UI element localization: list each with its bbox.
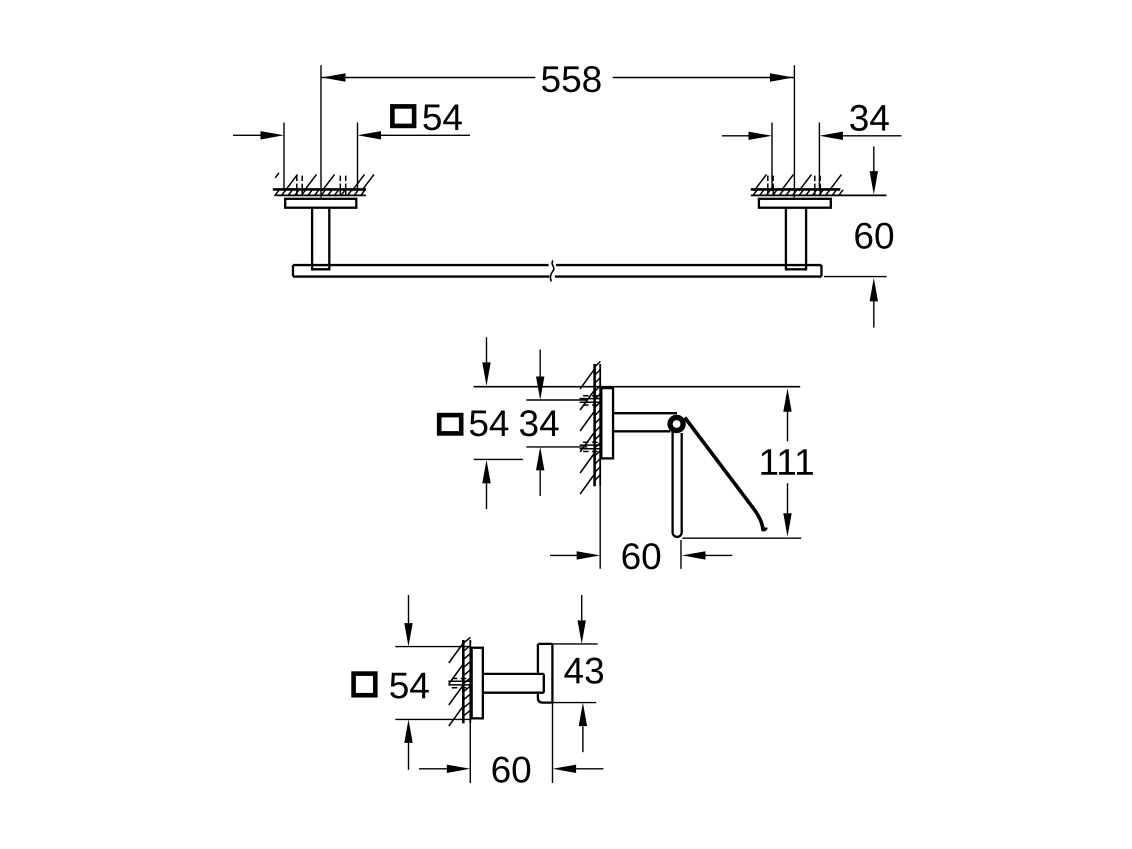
svg-text:34: 34 (849, 98, 890, 139)
wall surface right (towel bar) (751, 188, 841, 191)
dimension 60 extension lines (paper holder) (600, 486, 681, 569)
dimension 54 extension lines (left plate) (284, 123, 358, 191)
dimension 54 arrows (hook) (408, 595, 410, 623)
dimension 558 extension line left (mount centerline) (320, 65, 322, 197)
svg-text:54: 54 (468, 403, 509, 444)
dimension 558 line and arrows (321, 77, 794, 79)
wall rosette plate (paper holder) (601, 388, 613, 458)
dimension 60 extension lines (hook) (470, 703, 552, 783)
bottom extension line (paper holder) (682, 537, 801, 539)
dimension 60 right arrow (hook) (553, 765, 577, 773)
svg-text:111: 111 (758, 442, 814, 483)
dimension 54 line and arrows (233, 134, 470, 136)
dimension 34 extension lines (paper holder) (526, 400, 587, 447)
wall surface (paper holder) (593, 364, 596, 486)
roll holder post (paper holder) (673, 431, 682, 537)
square symbol 54 (towel bar) (392, 106, 414, 126)
cover flap (paper holder) (685, 418, 766, 530)
dimension 43 extension lines (hook) (552, 644, 597, 703)
hook front piece (538, 644, 553, 703)
square symbol 54 (hook) (354, 674, 376, 696)
hook stem (483, 674, 544, 693)
left post (towel bar) (311, 208, 330, 270)
dimension 111 line and arrows (paper holder) (783, 388, 791, 412)
svg-text:60: 60 (621, 536, 662, 577)
wall surface left (towel bar) (273, 188, 366, 191)
holder arm (paper holder) (614, 413, 678, 431)
wall hatching (paper holder) (580, 361, 601, 494)
svg-text:60: 60 (491, 749, 532, 790)
dimension 60 lower arrow (towel bar) (873, 295, 875, 328)
dimension 54 lower extension and arrow (paper holder) (474, 458, 523, 460)
svg-text:558: 558 (541, 59, 603, 100)
dimension 60 upper arrow (towel bar) (873, 146, 875, 178)
dimension 34 extension lines (right plate) (772, 123, 819, 192)
svg-text:54: 54 (389, 665, 430, 706)
wall hatching right (towel bar) (753, 174, 844, 196)
wall surface (hook) (462, 640, 465, 723)
pivot circle (paper holder) (670, 417, 683, 430)
towel rail bar (293, 265, 821, 277)
svg-text:60: 60 (853, 215, 894, 256)
svg-text:54: 54 (422, 97, 463, 138)
top extension line (paper holder) (474, 386, 801, 388)
dimension 54 upper arrow (paper holder) (486, 337, 488, 362)
dimension 60 left arrow (paper holder) (550, 554, 578, 556)
break symbol on bar (550, 261, 553, 282)
dimension 60 left arrow (hook) (419, 768, 447, 770)
wall plate (hook) (472, 648, 483, 719)
dimension 60 right arrow (paper holder) (682, 551, 706, 559)
left wall plate (towel bar) (285, 199, 356, 208)
dimension 43 arrows (hook) (581, 595, 583, 620)
right post (towel bar) (785, 208, 807, 270)
wall hatching (hook) (448, 637, 470, 726)
svg-text:34: 34 (519, 403, 560, 444)
square symbol 54 (paper holder) (439, 415, 461, 433)
right wall plate (towel bar) (759, 199, 831, 208)
wall hatching left (towel bar) (275, 173, 375, 196)
dimension 558 extension line right (mount centerline) (793, 65, 795, 197)
dimension 34 arrows (paper holder) (539, 350, 541, 377)
bar bottom extension line (824, 276, 887, 278)
svg-text:43: 43 (564, 650, 605, 691)
dimension 54 extension lines (hook) (395, 647, 470, 720)
dimension 34 line and arrows (722, 135, 902, 137)
